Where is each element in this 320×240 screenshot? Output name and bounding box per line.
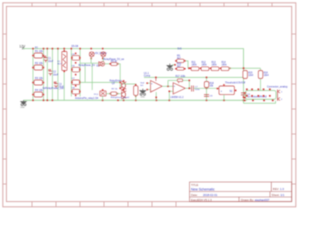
junction xyxy=(71,69,73,71)
svg-text:GND: GND xyxy=(140,97,145,99)
capacitor C2 xyxy=(48,69,52,76)
opto PC1 xyxy=(100,89,106,96)
junction xyxy=(169,91,171,93)
svg-text:TITLE:: TITLE: xyxy=(191,183,199,187)
svg-text:Threshold-0.5V/Off: Threshold-0.5V/Off xyxy=(225,82,245,85)
svg-text:R2 10k: R2 10k xyxy=(35,62,44,65)
svg-text:RelayDriver_pwm2: RelayDriver_pwm2 xyxy=(111,96,130,99)
junction xyxy=(71,82,73,84)
svg-text:5V0: 5V0 xyxy=(178,49,183,51)
diode D5 xyxy=(71,54,80,60)
resistor R9 xyxy=(175,55,185,62)
junction xyxy=(174,64,176,66)
svg-text:180k: 180k xyxy=(202,64,208,66)
capacitor C8 xyxy=(204,95,209,97)
wire U1.2 output xyxy=(185,87,191,89)
junction xyxy=(229,68,231,70)
transistor Q2 xyxy=(99,62,105,66)
junction xyxy=(217,88,219,90)
vertical rail x243.5 xyxy=(243,68,245,103)
vertical rail x206.5 xyxy=(206,77,208,100)
resistor R6 xyxy=(134,84,138,97)
svg-text:LM358 U1.2: LM358 U1.2 xyxy=(170,96,184,99)
resistor chain R12 xyxy=(200,62,209,71)
svg-text:-: - xyxy=(151,89,152,92)
junction xyxy=(223,84,225,86)
wire y63 xyxy=(80,62,99,64)
svg-text:-: - xyxy=(174,91,175,94)
wire bottom rail xyxy=(24,99,247,101)
capacitor C7 xyxy=(192,86,194,92)
junction xyxy=(175,60,177,62)
junction xyxy=(119,82,121,84)
wire R5 bend down xyxy=(117,64,120,89)
junction xyxy=(119,88,121,90)
junction xyxy=(189,88,191,90)
wire top rail xyxy=(23,49,244,69)
svg-text:ArduinoPin_relay1 D4: ArduinoPin_relay1 D4 xyxy=(75,97,99,100)
svg-text:Connector_analog: Connector_analog xyxy=(267,86,288,89)
junction dots top rail xyxy=(32,48,103,50)
junction xyxy=(32,82,34,84)
junction xyxy=(146,82,148,84)
wire R7 right xyxy=(117,93,121,95)
transistor Q4 xyxy=(121,90,126,99)
capacitor C1 xyxy=(44,56,48,63)
svg-text:Date:: Date: xyxy=(191,193,198,197)
junction xyxy=(32,55,34,57)
junction xyxy=(135,84,137,86)
wire gnd to R9 xyxy=(172,64,175,66)
junction ladder mid pins xyxy=(75,53,77,97)
svg-text:R17 100k: R17 100k xyxy=(176,76,187,78)
wire diode drop xyxy=(90,58,92,64)
junction xyxy=(167,86,169,88)
wire PC1 to R7 xyxy=(106,93,111,95)
frame ticks right xyxy=(292,34,296,184)
group box connector xyxy=(246,91,277,100)
svg-text:Sheet: 1/1: Sheet: 1/1 xyxy=(272,193,285,197)
junction xyxy=(243,77,245,79)
wire R6 bottom xyxy=(135,95,137,100)
op-amp U1.1 xyxy=(151,77,163,93)
junction xyxy=(235,90,237,92)
junction marks connector rows xyxy=(244,89,274,102)
svg-text:4xRelayPower_coil: 4xRelayPower_coil xyxy=(43,87,65,90)
resistor chain R13 xyxy=(210,62,219,71)
wire U1.2 lower input xyxy=(169,90,173,92)
vertical rail x47.3 xyxy=(46,49,48,101)
svg-text:180k: 180k xyxy=(192,64,198,66)
junction xyxy=(189,80,191,82)
wire Q2 to R5 xyxy=(105,63,111,65)
junction xyxy=(175,68,177,70)
svg-text:R3 10k: R3 10k xyxy=(35,77,44,80)
resistor R15 xyxy=(243,71,254,79)
junction xyxy=(71,91,73,93)
connector J1 xyxy=(278,90,281,101)
svg-text:10k4: 10k4 xyxy=(264,75,270,77)
resistor R2 xyxy=(32,62,44,70)
resistor R18 xyxy=(204,82,214,88)
junction xyxy=(243,96,245,98)
relay K1 xyxy=(62,50,67,72)
power flag xyxy=(22,48,25,49)
svg-text:10uF: 10uF xyxy=(53,74,59,76)
op-amp U1.2 xyxy=(173,80,185,94)
resistor R7 xyxy=(109,88,118,95)
resistor R4 xyxy=(32,89,44,97)
vertical rail x43.5 xyxy=(43,49,45,101)
junction xyxy=(102,89,104,91)
junction xyxy=(32,67,34,69)
resistor chain R11 xyxy=(190,62,199,71)
wire connector loop xyxy=(244,101,276,104)
ground wheels mid xyxy=(167,64,173,71)
junction xyxy=(210,68,212,70)
junction xyxy=(206,88,208,90)
resistor R5 xyxy=(109,61,118,66)
ground chassis left xyxy=(21,100,27,105)
junction xyxy=(32,94,34,96)
ladder rail left x71.3 xyxy=(70,49,72,97)
junction xyxy=(109,63,111,65)
svg-text:100n: 100n xyxy=(195,89,201,91)
svg-text:RLY: RLY xyxy=(57,64,62,66)
junction xyxy=(64,50,66,52)
wire Q3 collector to R6 xyxy=(124,82,136,86)
svg-text:180k: 180k xyxy=(212,64,218,66)
resistor R17 feedback xyxy=(168,76,190,88)
wire U1.1 vee stub xyxy=(155,92,157,100)
wire relay pins xyxy=(63,49,65,52)
resistor chain R14 xyxy=(220,62,231,71)
capacitor C3 xyxy=(54,81,58,88)
svg-text:10k4: 10k4 xyxy=(248,75,254,77)
IC U3 xyxy=(217,84,237,100)
svg-text:2018-02-01: 2018-02-01 xyxy=(203,193,218,197)
svg-text:GND: GND xyxy=(20,107,25,109)
junction xyxy=(155,77,157,79)
junction xyxy=(71,57,73,59)
frame ticks top xyxy=(32,3,272,7)
frame ticks bottom xyxy=(32,202,176,207)
junction Q3/Q4 xyxy=(123,80,125,90)
svg-text:5C: 5C xyxy=(230,91,233,93)
junction xyxy=(243,67,245,69)
svg-text:REV: 1.0: REV: 1.0 xyxy=(273,187,285,191)
svg-text:Comp: Comp xyxy=(144,75,151,78)
wire C7 to box xyxy=(193,87,217,89)
resistor R3 xyxy=(32,77,44,85)
svg-text:RelayPower_5V: RelayPower_5V xyxy=(79,64,96,67)
wire vertical x92 xyxy=(91,63,93,90)
junction xyxy=(146,89,148,91)
frame outer border xyxy=(3,3,296,207)
svg-text:Drawn By: stephan007: Drawn By: stephan007 xyxy=(241,198,270,202)
diode D7 xyxy=(71,78,80,84)
junction xyxy=(188,67,190,69)
junction dots bottom rail xyxy=(32,100,244,102)
junction xyxy=(200,68,202,70)
resistor R10 xyxy=(175,64,185,71)
wire vertical x85 xyxy=(84,63,86,82)
title block xyxy=(190,182,292,202)
junction xyxy=(190,68,192,70)
wire Q pair bottom xyxy=(123,98,125,100)
wire base rail y82.4 xyxy=(80,81,120,83)
resistor R1 xyxy=(32,50,44,58)
wire R9 bend xyxy=(186,61,188,68)
junction xyxy=(64,71,66,73)
svg-text:10uF: 10uF xyxy=(48,61,54,63)
vertical rail x52.4 xyxy=(51,49,53,101)
junction xyxy=(109,93,111,95)
svg-text:R1 10k: R1 10k xyxy=(35,50,44,53)
svg-text:D5-D8: D5-D8 xyxy=(72,46,79,48)
diode X D1 xyxy=(89,52,94,57)
wire mid rail y77.4 xyxy=(144,76,244,78)
resistor R16 xyxy=(258,68,269,90)
junction xyxy=(90,57,92,59)
wire U1.1 out xyxy=(162,85,173,87)
junction xyxy=(220,68,222,70)
vertical rail x33 xyxy=(32,49,34,101)
wire U1.1 inputs xyxy=(148,82,151,84)
ground chassis mid xyxy=(140,89,146,96)
svg-text:180k: 180k xyxy=(222,64,228,66)
vertical rail x57.9 xyxy=(57,49,59,101)
diode X D2 xyxy=(101,52,106,57)
wire chain right xyxy=(229,67,261,69)
junction xyxy=(102,57,104,59)
frame ticks left xyxy=(3,34,7,184)
svg-text:R7 1k: R7 1k xyxy=(112,88,119,90)
frame inner border xyxy=(6,6,291,201)
svg-text:New Schematic: New Schematic xyxy=(191,187,215,191)
diode D8 xyxy=(71,88,80,94)
transistor Q3 xyxy=(121,81,126,90)
capacitor C9 xyxy=(241,93,247,95)
diode D6 xyxy=(71,66,80,72)
svg-text:EasyEDA V5.1.3: EasyEDA V5.1.3 xyxy=(191,198,212,202)
ladder rail right x80.1 xyxy=(79,49,81,97)
junction xyxy=(206,77,208,79)
